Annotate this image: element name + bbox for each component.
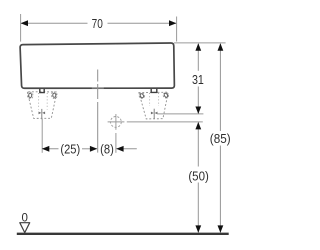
right bracket dotted guide right [158, 93, 160, 106]
drain position symbol [108, 114, 125, 130]
left bracket hole left [28, 92, 33, 98]
dimension line (25) [42, 146, 97, 152]
basin center mark cross [92, 87, 104, 89]
floor line [17, 233, 229, 235]
right bracket hole left [139, 93, 144, 98]
dimension line 31 [195, 43, 201, 114]
extension line from drain down [115, 133, 117, 153]
svg-text:(25): (25) [60, 141, 80, 156]
svg-text:0: 0 [22, 211, 29, 225]
extension line left of dimension 70 [20, 14, 22, 42]
svg-text:(85): (85) [210, 131, 231, 146]
right bracket dotted guide left [149, 93, 151, 106]
svg-text:(8): (8) [100, 141, 114, 156]
svg-text:(50): (50) [188, 169, 209, 184]
extension line right of dimension 70 [176, 17, 178, 42]
left bracket fixing point marker [39, 109, 46, 119]
datum level triangle [20, 223, 30, 233]
dimension line (50) [195, 122, 201, 233]
right bracket clip [151, 89, 157, 93]
dimension line (85) [218, 43, 224, 233]
extension line from left fixing point [41, 119, 43, 153]
leader line from drain to (50) [127, 121, 203, 123]
right bracket outline [139, 92, 168, 119]
basin center line [97, 70, 99, 153]
leader line from right fixing point [158, 113, 204, 115]
svg-text:70: 70 [92, 16, 103, 31]
top reference line for 31 and (85) [174, 42, 226, 44]
washbasin outline [20, 43, 174, 88]
left bracket dotted guide right [46, 93, 48, 110]
dimension line 70 [21, 20, 177, 26]
right bracket hole right [163, 93, 168, 98]
right bracket fixing point marker [151, 109, 158, 119]
left bracket outline [27, 92, 57, 119]
left bracket hole right [52, 92, 57, 98]
svg-text:31: 31 [192, 72, 204, 87]
left bracket dotted guide left [38, 93, 40, 110]
dimension (8) outside arrow with tail [116, 146, 137, 152]
left bracket clip [40, 89, 44, 93]
